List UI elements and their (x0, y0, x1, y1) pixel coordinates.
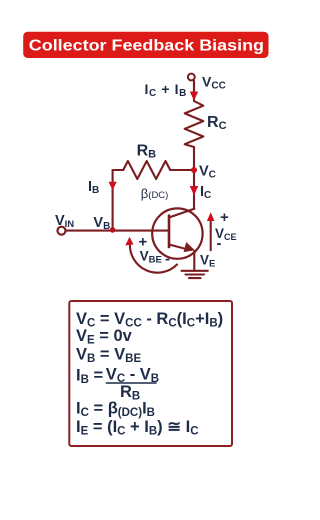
svg-text:VB: VB (93, 215, 110, 232)
svg-text:β(DC): β(DC) (141, 186, 169, 201)
svg-text:Collector Feedback Biasing: Collector Feedback Biasing (29, 37, 264, 54)
svg-text:IC + IB: IC + IB (145, 81, 187, 99)
svg-text:RB: RB (137, 143, 157, 161)
svg-text:IB =: IB = (76, 367, 103, 387)
svg-text:IB: IB (88, 179, 99, 196)
svg-text:VC: VC (199, 163, 216, 180)
svg-text:VE = 0v: VE = 0v (76, 327, 133, 347)
svg-text:IC: IC (200, 184, 211, 201)
svg-text:VCC: VCC (202, 74, 226, 92)
svg-text:-: - (165, 251, 170, 268)
svg-text:RC: RC (207, 114, 227, 132)
svg-text:VIN: VIN (55, 213, 74, 230)
svg-text:IE = (IC + IB) ≅ IC: IE = (IC + IB) ≅ IC (76, 418, 199, 438)
svg-text:VE: VE (200, 253, 215, 270)
svg-text:+: + (220, 209, 229, 226)
svg-text:-: - (217, 235, 222, 252)
